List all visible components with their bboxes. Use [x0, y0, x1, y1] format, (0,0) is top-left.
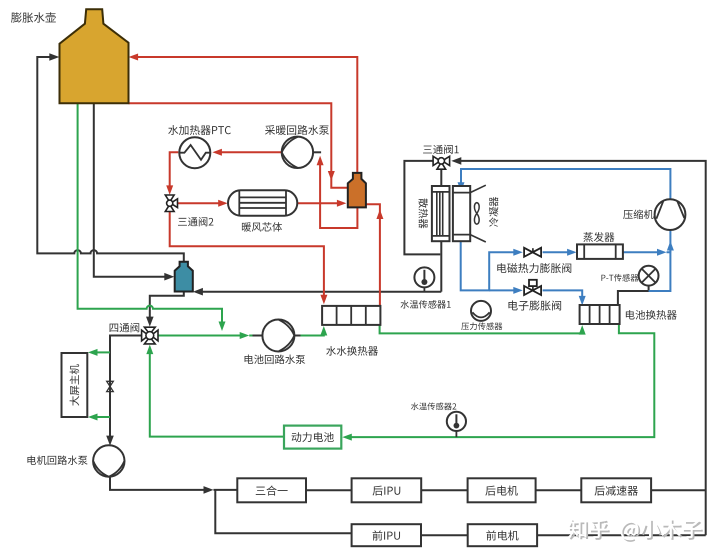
- condenser 冷凝器: [453, 185, 486, 242]
- wire: radiator lower pipe (black): [440, 240, 442, 292]
- label 大屏主机: [70, 364, 80, 405]
- box 后电机: [468, 478, 536, 502]
- check symbol: [107, 381, 114, 391]
- wire: expansion tank green branch to 4-way area (green): [78, 103, 226, 331]
- label 采暖回路水泵: [265, 125, 329, 135]
- expansion tank 膨胀水壶: [60, 9, 129, 103]
- label P-T传感器: [601, 274, 638, 282]
- label 电磁热力膨胀阀: [497, 263, 571, 273]
- label 后IPU: [373, 486, 401, 496]
- degas bottle: [175, 262, 193, 292]
- PTC heater 水加热器PTC: [179, 137, 210, 168]
- box 动力电池: [284, 426, 341, 449]
- label 水水换热器: [326, 346, 378, 356]
- wire: expansion tank inlet (black): [37, 53, 184, 262]
- wire: battery pump to water-water HX (green): [301, 326, 328, 336]
- label 水温传感器2: [411, 402, 456, 410]
- wire: valve1 bypass loop (black): [404, 161, 440, 255]
- label 水加热器PTC: [168, 125, 231, 135]
- wire: valve2 to heater core (red): [178, 200, 228, 207]
- label 水温传感器1: [401, 300, 451, 308]
- wire: PTC to 3-way valve2 (red): [166, 152, 178, 195]
- wire: condenser top feed (blue): [458, 169, 671, 199]
- wire: stub to display host top (green): [88, 349, 110, 356]
- wire: sanheyi to rear IPU (black): [306, 489, 352, 491]
- label 电池回路水泵: [245, 355, 306, 365]
- wire: radiator outlet bus (black): [193, 288, 441, 296]
- wire: expansion tank bottom to degas bottle (black): [94, 103, 175, 281]
- wire: battery pump left stub (black): [253, 335, 264, 337]
- EXV 电子膨胀阀: [524, 280, 541, 295]
- label 膨胀水壶: [11, 12, 56, 23]
- wire: water-water HX to battery chiller (green): [380, 325, 586, 335]
- label 后减速器: [595, 486, 638, 496]
- wire: heater-tank bottom to heating pump suction (red): [317, 156, 358, 228]
- wire: TXV to evaporator (blue): [543, 249, 577, 256]
- wire: condenser outlet riser (blue): [461, 240, 523, 290]
- radiator 散热器: [432, 186, 450, 241]
- wire: battery chiller to power battery (green): [342, 324, 654, 441]
- label 四通阀: [110, 323, 140, 333]
- box 后减速器: [581, 478, 651, 502]
- box 前IPU: [352, 524, 421, 546]
- label 三通阀2: [178, 217, 213, 226]
- label 电机回路水泵: [27, 455, 87, 464]
- label 后电机: [485, 486, 517, 496]
- heater core 暖风芯体: [228, 190, 297, 215]
- wire: evaporator to compressor junction (blue): [623, 249, 671, 291]
- solenoid TXV 电磁热力膨胀阀: [524, 248, 541, 257]
- watermark shadow: [570, 521, 703, 542]
- label 压缩机: [623, 210, 653, 220]
- pump 采暖回路水泵: [282, 137, 313, 168]
- wire: degas bottle to 4-way valve (black): [146, 291, 184, 327]
- wire: expansion tank bottom to heater-tank left (red): [129, 103, 348, 188]
- wire: EXV to battery chiller (blue): [543, 290, 586, 305]
- wire: power battery to 4-way valve (green): [146, 345, 284, 437]
- label 前IPU: [373, 530, 400, 540]
- box 三合一: [237, 478, 306, 502]
- evaporator 蒸发器: [577, 244, 623, 259]
- wire: front IPU to front motor (black): [421, 534, 468, 536]
- label 三通阀1: [423, 145, 459, 154]
- wire: heating pump to PTC (red): [212, 149, 282, 156]
- pump 电池回路水泵: [262, 320, 294, 352]
- box 后IPU: [352, 478, 422, 502]
- wire: valve2 bypass to water-water HX (red): [170, 212, 328, 305]
- label 电池换热器: [626, 310, 677, 320]
- wire: compressor suction riser (blue): [667, 230, 674, 252]
- label 压力传感器: [461, 322, 502, 330]
- wire: rear IPU to rear motor (black): [421, 489, 467, 491]
- watermark 知乎@小木子: [568, 519, 701, 540]
- condenser fan: [474, 203, 479, 225]
- wire: rear motor to rear reducer (black): [536, 489, 582, 491]
- label 电子膨胀阀: [508, 300, 561, 310]
- sensor 压力传感器: [471, 301, 491, 321]
- wire: motor pump outlet (black): [110, 477, 352, 534]
- compressor 压缩机: [655, 199, 686, 230]
- heater loop tank: [348, 173, 366, 208]
- wire: valve1 feed from right border (black): [451, 157, 705, 535]
- sensor 水温传感器1: [414, 267, 434, 291]
- water-water HX 水水换热器: [322, 306, 380, 325]
- label 三合一: [256, 486, 288, 496]
- label 前电机: [486, 530, 518, 540]
- pump 电机回路水泵: [93, 445, 124, 476]
- wire: stub to display host bottom (green): [88, 414, 110, 421]
- wire: 4-way valve to motor pump (black): [106, 336, 142, 446]
- box 前电机: [468, 524, 537, 546]
- wire: heating pump stub (black): [313, 151, 321, 153]
- wire: valve1 to radiator (black): [440, 169, 442, 187]
- label 暖风芯体: [242, 222, 282, 232]
- sensor 水温传感器2: [447, 412, 466, 437]
- label 蒸发器: [583, 232, 614, 242]
- sensor P-T传感器: [639, 266, 659, 286]
- box 大屏主机: [62, 353, 88, 417]
- wire: condenser-tank top to expansion tank (red): [129, 54, 358, 173]
- wire: water-water HX to heater-tank right (red): [366, 204, 383, 306]
- 3-way valve 三通阀2: [165, 195, 177, 212]
- label 散热器: [419, 198, 428, 228]
- label 冷凝器: [489, 197, 498, 227]
- wire: P-T sensor link (black): [618, 286, 649, 306]
- 4-way valve 四通阀: [142, 327, 158, 344]
- wire: heater core to heater-tank (red): [297, 200, 346, 207]
- wire: rear reducer to right border (black): [651, 489, 706, 491]
- label 动力电池: [292, 432, 334, 442]
- wire: battery pump right stub (black): [294, 335, 302, 337]
- wire: junction to EXV (blue): [489, 287, 523, 294]
- battery chiller 电池换热器: [580, 305, 620, 324]
- wire: front motor to right border (black): [537, 534, 706, 536]
- 3-way valve 三通阀1: [433, 156, 450, 169]
- wire: 4-way valve to battery pump (green): [158, 332, 254, 339]
